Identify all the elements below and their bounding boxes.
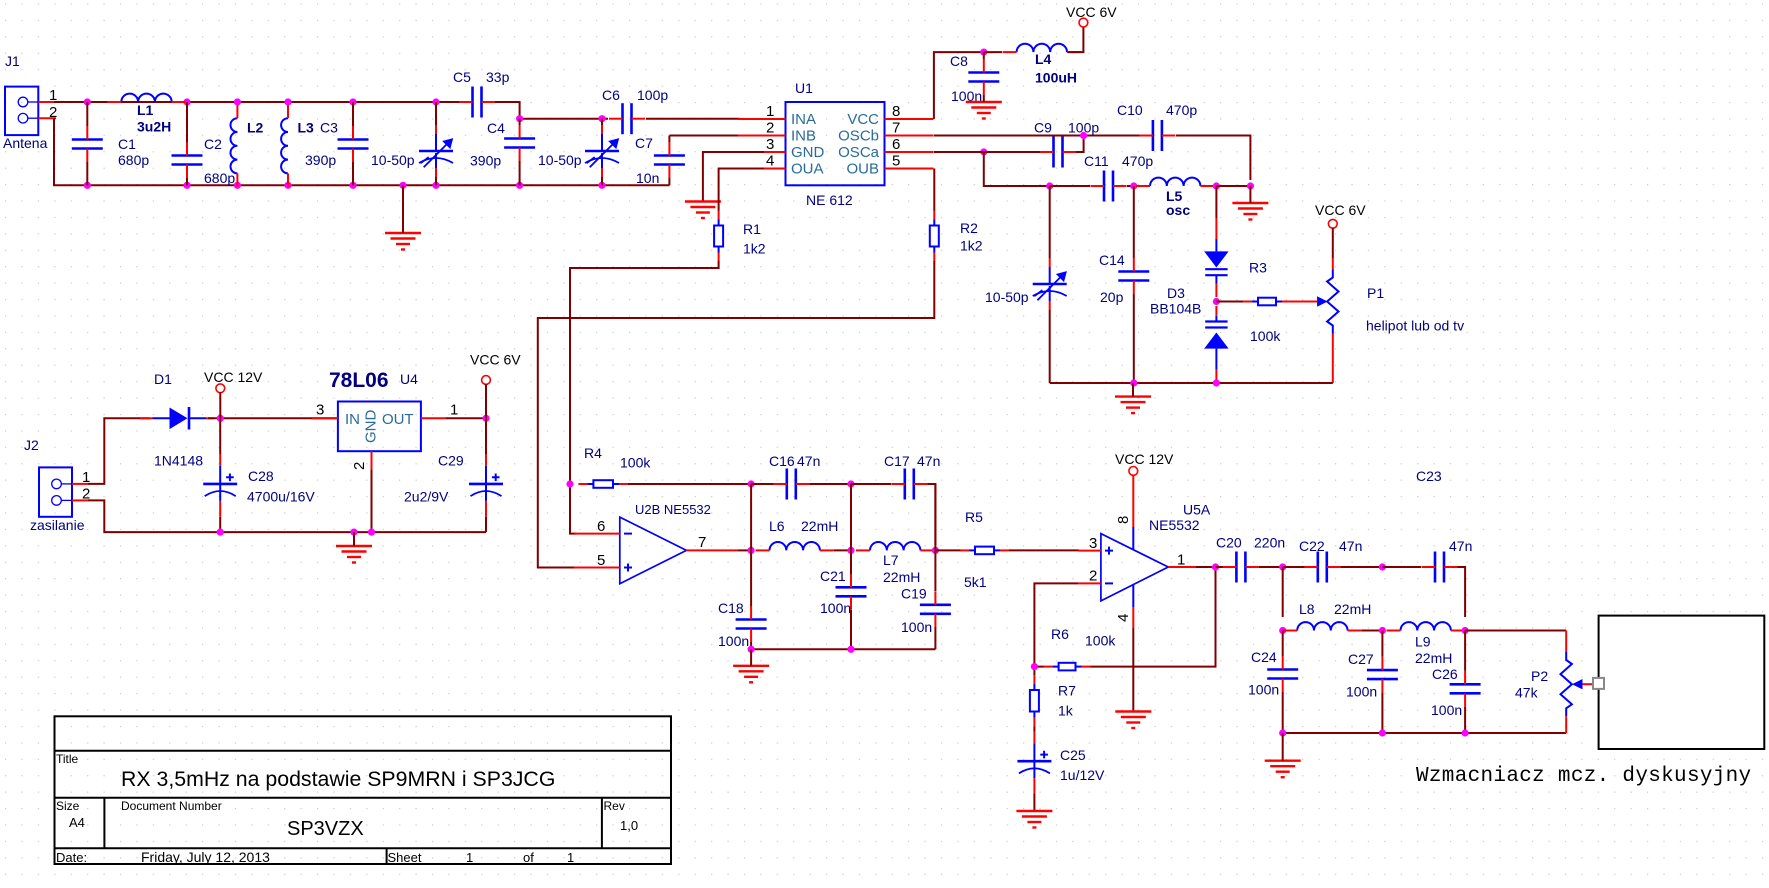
svg-text:5: 5 xyxy=(892,153,900,170)
capacitor C22 xyxy=(1304,552,1340,583)
svg-text:D3: D3 xyxy=(1167,285,1185,301)
wire output gnd rail xyxy=(1283,732,1567,734)
wire U4 out to VCC6 node xyxy=(446,417,486,419)
capacitor C19 xyxy=(920,591,951,627)
svg-text:1: 1 xyxy=(766,103,774,120)
junction C4 bottom xyxy=(516,182,523,189)
svg-text:D1: D1 xyxy=(154,371,172,387)
svg-text:33p: 33p xyxy=(486,69,510,85)
junction L6 L7 node xyxy=(847,547,854,554)
wire L8 to L9 node xyxy=(1362,630,1383,632)
svg-text:GND: GND xyxy=(363,410,380,444)
wire U1 pin4 down to R1 xyxy=(719,169,764,212)
svg-text:100k: 100k xyxy=(1250,328,1281,344)
junction D3 top xyxy=(1213,182,1220,189)
svg-text:47n: 47n xyxy=(1339,538,1362,554)
svg-text:VCC: VCC xyxy=(847,111,879,128)
wire R4 to C16 node xyxy=(628,483,751,485)
svg-text:100p: 100p xyxy=(637,87,668,103)
svg-text:10-50p: 10-50p xyxy=(538,152,582,168)
svg-text:C23: C23 xyxy=(1416,468,1442,484)
capacitor C2 xyxy=(172,142,203,178)
wire C17 node to cap xyxy=(851,483,891,485)
svg-text:5: 5 xyxy=(597,552,605,569)
potentiometer P2 xyxy=(1561,652,1572,716)
capacitor C17 xyxy=(891,469,927,500)
wire C6 to U1 pin1 xyxy=(646,118,740,120)
ground oscillator tank xyxy=(1232,203,1268,220)
wire C7 bottom lead xyxy=(668,178,670,185)
svg-text:10-50p: 10-50p xyxy=(371,152,415,168)
capacitor C29 2u2 xyxy=(469,454,503,517)
svg-text:NE5532: NE5532 xyxy=(1149,517,1200,533)
svg-text:U2B NE5532: U2B NE5532 xyxy=(635,502,711,517)
svg-text:6: 6 xyxy=(597,518,605,535)
svg-text:470p: 470p xyxy=(1122,153,1153,169)
svg-text:BB104B: BB104B xyxy=(1150,301,1201,317)
junction L2 top xyxy=(234,98,241,105)
inductor L4 xyxy=(1003,44,1081,52)
capacitor C25 1u xyxy=(1017,731,1051,794)
svg-text:L2: L2 xyxy=(247,120,264,136)
junction C2 bottom xyxy=(183,182,190,189)
svg-text:22mH: 22mH xyxy=(1334,601,1371,617)
svg-text:OSCb: OSCb xyxy=(838,128,879,145)
ground audio filter xyxy=(733,666,769,683)
junction D3 mid node xyxy=(1213,298,1220,305)
wire gnd stub output rail xyxy=(1282,733,1284,761)
junction L2 bottom xyxy=(234,182,241,189)
inductor L1 xyxy=(107,94,185,102)
op-amp U5A triangle xyxy=(1101,534,1168,601)
wire C8 top lead xyxy=(983,52,985,59)
svg-text:L7: L7 xyxy=(883,552,899,568)
wire L4 node to coil xyxy=(984,51,1002,53)
wire gnd stub audio filter xyxy=(750,649,752,666)
svg-text:C10: C10 xyxy=(1117,102,1143,118)
junction psu rail U4gnd xyxy=(368,529,375,536)
svg-text:7: 7 xyxy=(698,534,706,551)
svg-text:3: 3 xyxy=(766,136,774,153)
wire VCC to P1 top xyxy=(1332,228,1334,258)
capacitor C10 xyxy=(1139,120,1175,151)
port square at P2 wiper xyxy=(1593,678,1604,689)
wire C28 top lead xyxy=(219,418,221,454)
inductor L6 xyxy=(756,542,834,550)
junction osc rail D3 xyxy=(1213,379,1220,386)
junction rail C27 xyxy=(1379,729,1386,736)
svg-text:Antena: Antena xyxy=(3,135,48,151)
svg-text:4: 4 xyxy=(766,153,774,170)
junction R6 R7 node xyxy=(1031,663,1038,670)
connector J2 xyxy=(39,467,88,516)
wire U1 pin6 to C9 xyxy=(934,151,1040,153)
svg-text:VCC 6V: VCC 6V xyxy=(470,352,521,368)
svg-text:7: 7 xyxy=(892,120,900,137)
wire C20 left xyxy=(1216,566,1224,568)
svg-text:P2: P2 xyxy=(1531,668,1548,684)
svg-text:P1: P1 xyxy=(1367,285,1384,301)
resistor R6 xyxy=(1044,663,1091,671)
diode D3 varactor pair BB104B xyxy=(1204,186,1228,383)
junction U4 out node xyxy=(482,415,489,422)
svg-text:C28: C28 xyxy=(248,468,274,484)
ground psu rail xyxy=(336,546,372,563)
svg-text:INA: INA xyxy=(791,111,816,128)
junction C22 C23 node xyxy=(1379,563,1386,570)
svg-text:C11: C11 xyxy=(1084,153,1109,169)
svg-text:1k2: 1k2 xyxy=(743,241,766,257)
svg-text:U1: U1 xyxy=(795,80,813,96)
svg-text:R7: R7 xyxy=(1058,683,1076,699)
svg-text:22mH: 22mH xyxy=(801,518,838,534)
svg-text:C5: C5 xyxy=(453,69,471,85)
svg-text:R6: R6 xyxy=(1051,626,1069,642)
svg-text:C3: C3 xyxy=(320,120,338,136)
svg-text:2: 2 xyxy=(1089,568,1097,585)
wire L4 to VCC 6V xyxy=(1068,26,1084,52)
capacitor C1 xyxy=(72,126,103,162)
junction U2B out node xyxy=(748,547,755,554)
inductor L3 xyxy=(281,105,288,186)
capacitor C26 xyxy=(1450,671,1481,707)
power VCC 6V top xyxy=(1079,18,1088,27)
junction L5 right ground node xyxy=(1247,182,1254,189)
svg-text:C1: C1 xyxy=(118,136,136,152)
wire VCC to P1 top red xyxy=(1332,258,1334,270)
wire C7 top to U1 pin2 xyxy=(669,136,740,143)
wire VCC12 stub xyxy=(219,392,221,418)
svg-text:L4: L4 xyxy=(1035,51,1052,67)
svg-text:100k: 100k xyxy=(620,455,651,471)
wire C21 top lead xyxy=(850,550,852,574)
power VCC 6V psu xyxy=(482,376,491,385)
svg-text:470p: 470p xyxy=(1166,102,1197,118)
svg-text:C17: C17 xyxy=(884,453,910,469)
junction psu rail C28 xyxy=(217,529,224,536)
junction R4 left node xyxy=(566,480,573,487)
wire C19 top lead xyxy=(934,550,936,591)
wire C22 to C23 node xyxy=(1340,566,1382,568)
junction C14 top xyxy=(1130,182,1137,189)
svg-text:1: 1 xyxy=(450,402,458,419)
wire C5 right to corner into y118 bus xyxy=(494,102,520,119)
junction osc rail C14 xyxy=(1130,379,1137,386)
wire antenna bottom bus xyxy=(54,118,669,185)
svg-text:Document Number: Document Number xyxy=(121,799,222,813)
junction L8 L9 node xyxy=(1379,627,1386,634)
power VCC 12V psu xyxy=(216,384,225,393)
inductor L9 xyxy=(1387,622,1465,630)
svg-text:6: 6 xyxy=(892,136,900,153)
wire psu bottom rail xyxy=(88,500,486,532)
wire C27 top lead xyxy=(1381,631,1383,657)
wire L7 node to R5 xyxy=(935,549,961,551)
wire C2 leads xyxy=(186,102,188,185)
junction rail C26 xyxy=(1462,729,1469,736)
svg-text:8: 8 xyxy=(892,103,900,120)
svg-text:4: 4 xyxy=(1115,614,1132,622)
capacitor C28 4700u xyxy=(203,454,237,517)
svg-text:390p: 390p xyxy=(470,153,501,169)
resistor R7 xyxy=(1030,675,1039,727)
wire C20 to C22 node xyxy=(1259,566,1283,568)
resistor R2 xyxy=(930,211,939,262)
capacitor C6 xyxy=(609,103,645,134)
junction trimmer1 bottom xyxy=(432,182,439,189)
svg-text:R5: R5 xyxy=(965,509,983,525)
U5A minus mark xyxy=(1105,582,1113,584)
wire gnd stub osc tank xyxy=(1249,186,1251,203)
resistor R1 xyxy=(714,211,723,262)
junction OSCa node pin6 xyxy=(980,148,987,155)
capacitor C16 xyxy=(773,469,809,500)
svg-text:100n: 100n xyxy=(901,619,932,635)
wire C10 right to corner down xyxy=(1176,136,1250,181)
wire L5 right to ground node xyxy=(1216,185,1250,187)
svg-text:Wzmacniacz mcz. dyskusyjny: Wzmacniacz mcz. dyskusyjny xyxy=(1416,765,1751,788)
svg-text:Date:: Date: xyxy=(56,850,87,865)
wire C22 node down to L8 xyxy=(1282,567,1284,617)
wire P1 bottom to osc rail xyxy=(1050,382,1333,384)
svg-text:IN: IN xyxy=(345,411,360,428)
ground osc rail xyxy=(1115,397,1151,414)
resistor R4 xyxy=(578,480,628,488)
junction C2 top xyxy=(183,98,190,105)
inductor L7 xyxy=(856,542,934,550)
connector J1 xyxy=(5,87,56,136)
svg-text:C6: C6 xyxy=(602,87,620,103)
wire R1 bottom to U2B pin6 route xyxy=(570,261,719,534)
svg-text:C7: C7 xyxy=(635,135,653,151)
junction C3 top xyxy=(349,98,356,105)
wire C16 node down to out node xyxy=(750,484,752,550)
svg-text:L1: L1 xyxy=(137,102,154,118)
ground U5A pin4 xyxy=(1115,712,1151,729)
wire C3 leads xyxy=(352,102,354,185)
svg-text:J2: J2 xyxy=(24,437,39,453)
svg-text:47n: 47n xyxy=(917,453,940,469)
svg-text:osc: osc xyxy=(1166,202,1190,218)
svg-text:78L06: 78L06 xyxy=(329,369,389,392)
wire L9 node to P2 top xyxy=(1465,630,1566,632)
trimmer capacitor CT1 10-50p xyxy=(419,102,453,185)
svg-text:3u2H: 3u2H xyxy=(137,119,171,135)
power VCC 12V U5A xyxy=(1129,467,1138,476)
U5A pin stubs xyxy=(1078,475,1212,628)
junction L3 top xyxy=(284,98,291,105)
svg-text:1: 1 xyxy=(1177,552,1185,569)
svg-text:1N4148: 1N4148 xyxy=(154,453,203,469)
svg-text:VCC 12V: VCC 12V xyxy=(204,369,263,385)
capacitor C21 xyxy=(836,574,867,610)
wire trimmer3 to C11 xyxy=(1050,185,1090,187)
wire gnd stub input filter xyxy=(402,185,404,233)
svg-text:R1: R1 xyxy=(743,221,761,237)
svg-text:C20: C20 xyxy=(1216,535,1242,551)
svg-text:1k: 1k xyxy=(1058,703,1074,719)
junction C3 bottom xyxy=(349,182,356,189)
wire D3 mid to R3 xyxy=(1216,301,1243,303)
wire C29 bottom lead xyxy=(485,517,487,532)
svg-text:100n: 100n xyxy=(1431,702,1462,718)
ground output rail xyxy=(1265,761,1301,778)
capacitor C11 xyxy=(1091,171,1127,202)
wire C26 top lead xyxy=(1464,631,1466,671)
wire C27 bottom lead xyxy=(1381,693,1383,733)
wiper arrow into P1 xyxy=(1291,301,1317,303)
wire C21 bottom lead xyxy=(850,610,852,649)
junction trimmer2 top xyxy=(598,115,605,122)
wire R7 to C25 xyxy=(1033,727,1035,733)
U2B pin stubs xyxy=(574,534,738,568)
capacitor C24 xyxy=(1267,656,1298,692)
svg-text:VCC 12V: VCC 12V xyxy=(1115,451,1174,467)
svg-text:RX 3,5mHz na podstawie SP9MRN: RX 3,5mHz na podstawie SP9MRN i SP3JCG xyxy=(121,767,555,791)
svg-text:C29: C29 xyxy=(438,453,464,469)
svg-text:100n: 100n xyxy=(820,600,851,616)
svg-text:10n: 10n xyxy=(636,170,659,186)
junction gnd stub bottom bus xyxy=(399,182,406,189)
svg-text:1u/12V: 1u/12V xyxy=(1060,767,1105,783)
svg-text:OUT: OUT xyxy=(382,411,414,428)
svg-text:Title: Title xyxy=(56,752,79,766)
wire U1 pin7 net to C10 xyxy=(934,135,1140,137)
svg-text:47k: 47k xyxy=(1515,685,1539,701)
svg-text:10-50p: 10-50p xyxy=(985,289,1029,305)
wire C9 right up to OSCb line xyxy=(1076,136,1084,153)
wire C25 to gnd xyxy=(1033,794,1035,811)
wire C16 to C17 node xyxy=(809,483,851,485)
svg-text:100n: 100n xyxy=(1346,684,1377,700)
svg-text:GND: GND xyxy=(791,144,825,161)
wire P2 top red xyxy=(1565,631,1567,653)
junction L3 bottom xyxy=(284,182,291,189)
op-amp U2B triangle xyxy=(620,517,687,584)
svg-text:5k1: 5k1 xyxy=(964,574,987,590)
wire U5A pin4 to gnd xyxy=(1132,628,1134,712)
wire C4 leads xyxy=(519,119,521,186)
U5A plus mark xyxy=(1105,547,1113,555)
svg-text:2: 2 xyxy=(351,462,368,470)
svg-text:2u2/9V: 2u2/9V xyxy=(404,489,449,505)
capacitor C7 xyxy=(654,142,685,178)
svg-text:C21: C21 xyxy=(820,568,846,584)
svg-text:C4: C4 xyxy=(487,120,505,136)
svg-text:L6: L6 xyxy=(769,518,785,534)
wire C26 bottom lead xyxy=(1464,707,1466,733)
wire C11 to L5 xyxy=(1127,185,1136,187)
svg-text:1,0: 1,0 xyxy=(620,818,638,833)
junction rail C18 xyxy=(748,646,755,653)
svg-text:1k2: 1k2 xyxy=(960,238,983,254)
svg-text:100n: 100n xyxy=(718,633,749,649)
trimmer capacitor CT3 10-50p xyxy=(1033,186,1067,383)
junction C16 left node xyxy=(748,480,755,487)
wire U1 pin5 down to R2 xyxy=(933,169,935,212)
power VCC 6V osc xyxy=(1328,219,1337,228)
amplifier block box xyxy=(1599,616,1765,749)
wire D1 to U4 pin3 xyxy=(208,417,338,419)
resistor R3 xyxy=(1243,298,1291,306)
svg-text:C19: C19 xyxy=(901,586,927,602)
wire bus y118 from C4 to C6 xyxy=(520,118,608,120)
wire C24 bottom lead xyxy=(1282,692,1284,733)
svg-text:Rev: Rev xyxy=(604,799,625,813)
svg-text:2: 2 xyxy=(766,120,774,137)
wire U1 pin3 to ground xyxy=(703,152,764,202)
svg-text:C22: C22 xyxy=(1299,538,1325,554)
wire U2B out to L6 node xyxy=(738,549,751,551)
svg-text:VCC 6V: VCC 6V xyxy=(1066,4,1117,20)
junction L8 left node xyxy=(1279,627,1286,634)
svg-text:C25: C25 xyxy=(1060,747,1086,763)
wire C14 bottom lead xyxy=(1133,294,1135,383)
junction psu rail gnd xyxy=(350,529,357,536)
junction C1 bottom xyxy=(84,182,91,189)
wire U5A pin2 route xyxy=(1034,583,1078,675)
svg-text:zasilanie: zasilanie xyxy=(30,517,85,533)
svg-text:L9: L9 xyxy=(1415,634,1431,650)
svg-text:of: of xyxy=(523,850,534,865)
svg-text:1: 1 xyxy=(466,850,473,865)
svg-text:SP3VZX: SP3VZX xyxy=(287,818,364,840)
svg-text:1: 1 xyxy=(567,850,574,865)
svg-text:390p: 390p xyxy=(305,152,336,168)
wire R6 to pin1 node xyxy=(1091,567,1216,667)
junction trimmer1 top xyxy=(432,98,439,105)
svg-text:C26: C26 xyxy=(1432,666,1458,682)
ground C25 xyxy=(1016,811,1052,828)
capacitor C4 xyxy=(504,125,535,161)
capacitor C8 xyxy=(968,59,999,95)
junction L7 right node xyxy=(932,547,939,554)
junction VCC12 node xyxy=(217,415,224,422)
capacitor C18 xyxy=(736,606,767,642)
svg-text:4700u/16V: 4700u/16V xyxy=(247,489,315,505)
svg-text:OUB: OUB xyxy=(846,161,879,178)
wire C18 top lead xyxy=(750,550,752,606)
junction C22 left node xyxy=(1279,563,1286,570)
svg-text:L3: L3 xyxy=(298,120,315,136)
wire C28 bottom lead xyxy=(219,517,221,532)
wire C17 right corner down xyxy=(927,484,935,545)
svg-text:helipot lub od tv: helipot lub od tv xyxy=(1366,318,1464,334)
wire C29 top lead xyxy=(485,418,487,454)
inductor L2 xyxy=(231,105,238,186)
junction rail C21 xyxy=(847,646,854,653)
junction C9 to OSCb line xyxy=(1080,132,1087,139)
wire C14 top lead xyxy=(1133,186,1135,258)
svg-text:U4: U4 xyxy=(400,371,418,387)
wire C24 top lead xyxy=(1282,631,1284,657)
wire J2 pin1 up to D1 line xyxy=(88,418,150,484)
svg-text:680p: 680p xyxy=(204,170,235,186)
wire OSCa node down to osc bus xyxy=(984,152,1050,186)
svg-text:3: 3 xyxy=(316,402,324,419)
svg-text:22mH: 22mH xyxy=(1415,650,1452,666)
title block frame xyxy=(55,716,672,864)
svg-text:C27: C27 xyxy=(1348,651,1374,667)
svg-text:C24: C24 xyxy=(1251,649,1277,665)
inductor L5 xyxy=(1136,178,1214,186)
capacitor C9 xyxy=(1040,137,1076,168)
diode D1 1N4148 xyxy=(140,407,214,430)
capacitor C27 xyxy=(1367,657,1398,693)
svg-text:680p: 680p xyxy=(118,152,149,168)
wire C8 bottom stub xyxy=(983,95,985,102)
trimmer capacitor CT2 10-50p xyxy=(585,119,619,186)
